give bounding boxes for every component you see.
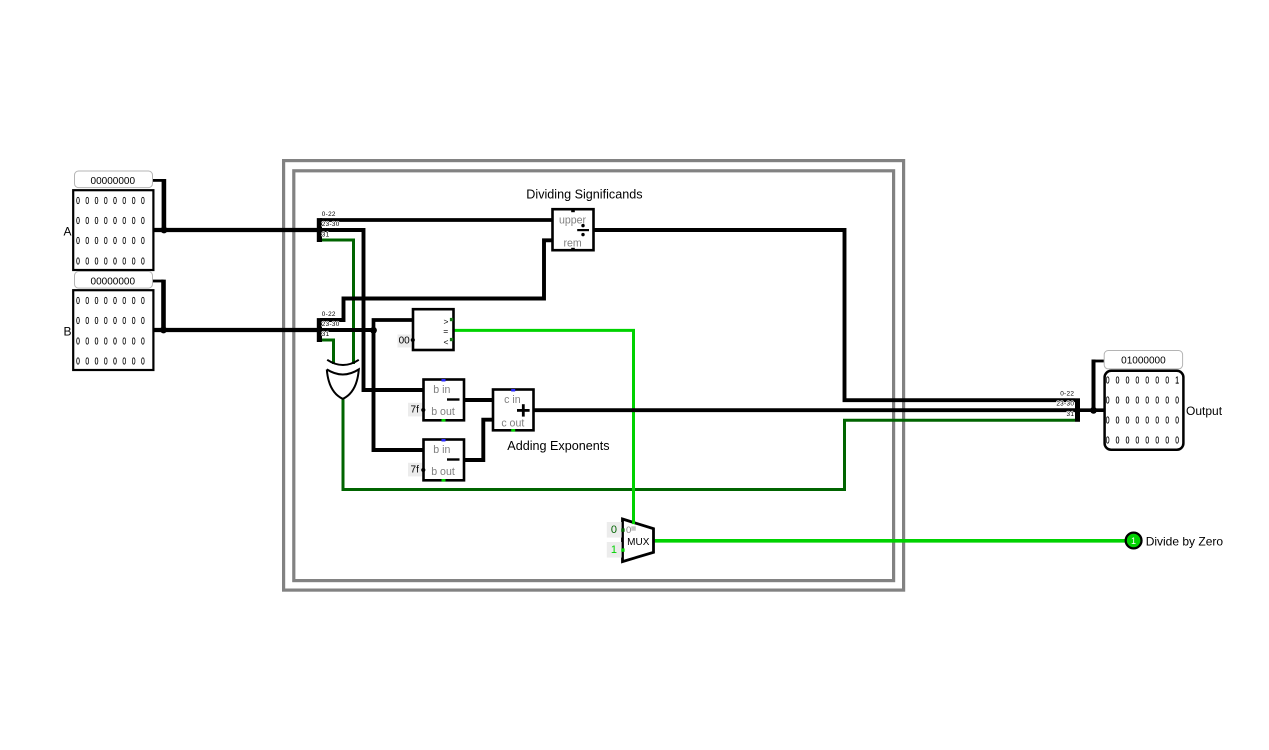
splitter S2 trunk (input B) [317,318,322,342]
subcircuit frame outer [284,161,904,590]
svg-text:b out: b out [431,466,455,478]
svg-text:rem: rem [563,237,581,249]
subtractor U4 (exponent B - 7f) [424,439,465,482]
svg-text:0-22: 0-22 [322,311,336,318]
wire splitter B 0-22 to divider lower-left port [320,240,553,320]
input pin B [63,272,153,371]
splitter S2 labels [322,311,340,338]
svg-text:1: 1 [611,544,617,556]
constant 1 at MUX input 1 [607,542,625,558]
wire MUX output (bright green) to Divide by Zero LED [654,539,1128,543]
multiplexer U6 [623,519,654,562]
svg-text:b out: b out [431,406,455,418]
svg-text:00: 00 [399,336,411,347]
svg-text:c in: c in [504,394,521,406]
svg-text:<: < [444,337,449,347]
constant 00 at comparator [398,335,415,348]
wire splitter A 0-22 to divider upper input [320,218,553,222]
splitter S3 labels (output) [1056,391,1074,418]
svg-text:MUX: MUX [627,537,650,548]
wire subtractor1 output to adder input [464,398,494,402]
wire junction up to comparator input [374,320,414,332]
svg-text:7f: 7f [411,404,420,415]
node junction B exponent [370,327,377,334]
wire junction down to subtractor2 input [374,328,424,450]
wire splitter B 23-30 to junction [320,328,374,332]
svg-text:7f: 7f [411,464,420,475]
svg-text:B: B [63,324,71,338]
wire output pin caption link [1092,360,1096,412]
svg-text:Output: Output [1186,404,1223,418]
svg-text:Adding Exponents: Adding Exponents [507,439,609,453]
svg-text:00000000: 00000000 [91,276,136,287]
wire pin B to splitter B [154,328,319,332]
wire adder output to output splitter leg 23-30 [533,408,1075,412]
wire B bit31 (dark green) from splitter B to XOR left input [322,340,334,364]
wire output splitter to output pin [1079,408,1105,412]
output LED Divide by Zero [1126,533,1224,549]
node junction at output pin [1090,407,1097,414]
svg-text:23-30: 23-30 [1056,401,1074,408]
output pin Output [1104,351,1222,450]
wire splitter A 23-30 to subtractor1 input [320,230,424,390]
splitter S1 labels [322,211,340,238]
wire XOR output sign (dark green) long run to output splitter leg 31 [343,398,1075,490]
svg-text:23-30: 23-30 [322,321,340,328]
node junction at pin A [161,227,168,234]
constant 7f at subtractor U4 [408,463,425,477]
wire A bit31 (dark green) from splitter A to XOR right input [322,240,354,364]
svg-text:A: A [63,224,71,238]
subcircuit frame inner [294,171,894,581]
svg-text:0: 0 [626,525,631,536]
svg-text:>: > [444,316,449,326]
svg-text:b in: b in [433,444,450,456]
svg-text:1: 1 [1131,536,1136,546]
splitter S3 trunk (output) [1075,398,1080,422]
constant 0 at MUX input 0 [607,522,625,538]
svg-text:31: 31 [1066,411,1074,418]
splitter S1 trunk (input A) [317,218,322,242]
xor gate G1 (sign) facing south [327,360,359,399]
wire pin A caption link [151,179,164,182]
wire pin A to splitter A [154,228,319,232]
node junction at pin B [160,327,167,334]
svg-text:01000000: 01000000 [1121,356,1166,367]
svg-text:00000000: 00000000 [91,176,136,187]
svg-text:=: = [443,326,448,336]
adder U5 (exponents) [493,389,534,432]
wire subtractor2 output to adder lower input [464,420,494,460]
svg-text:b in: b in [433,384,450,396]
wire comparator equal output (bright green) to MUX select [454,330,634,523]
svg-text:Divide by Zero: Divide by Zero [1146,535,1224,549]
svg-text:31: 31 [322,331,330,338]
svg-text:0-22: 0-22 [1060,391,1074,398]
constant 7f at subtractor U3 [408,403,425,417]
svg-text:0: 0 [611,524,617,536]
svg-text:0-22: 0-22 [322,211,336,218]
subtractor U3 (exponent A - 7f) [424,379,465,422]
svg-text:Dividing Significands: Dividing Significands [526,187,642,201]
wire divider quotient to output splitter leg 0-22 [594,230,1076,400]
wire pin B caption link [151,280,164,283]
svg-text:31: 31 [322,231,330,238]
svg-text:23-30: 23-30 [322,221,340,228]
divider U1 [553,209,594,250]
svg-text:c out: c out [501,418,524,430]
comparator U2 (divide-by-zero detect) [413,309,454,350]
input pin A [63,171,153,270]
